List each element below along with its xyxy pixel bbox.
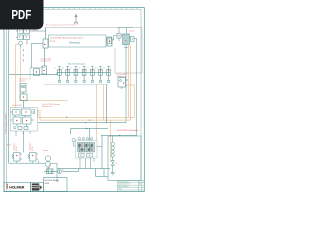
svg-text:F1: F1 [116, 164, 118, 166]
svg-text:10.01.03.1311: 10.01.03.1311 [12, 105, 22, 107]
svg-text:Drossel: Drossel [19, 80, 25, 83]
svg-text:BY-12: BY-12 [16, 146, 18, 151]
svg-text:BY-13: BY-13 [32, 146, 34, 151]
svg-text:10.01.02.3310 / Rücklauffilter: 10.01.02.3310 / Rücklauffilter [117, 129, 139, 132]
svg-text:Drosselventil: Drosselventil [41, 60, 51, 63]
svg-text:Fahrtrichtung vorwärts: Fahrtrichtung vorwärts [4, 114, 7, 134]
svg-text:Dämpfung: Dämpfung [69, 42, 80, 44]
svg-text:Druckspeicher: Druckspeicher [117, 76, 128, 78]
svg-text:BY-111: BY-111 [129, 30, 134, 32]
svg-text:HR 56-3 Reihig: HR 56-3 Reihig [45, 180, 60, 182]
svg-text:Bremse vorn: Bremse vorn [42, 105, 52, 108]
svg-text:BY-10: BY-10 [50, 41, 55, 43]
svg-text:PDF: PDF [11, 9, 31, 22]
svg-text:R1: R1 [62, 170, 64, 172]
svg-text:Y1: Y1 [54, 68, 56, 70]
svg-text:3: 3 [142, 181, 143, 183]
svg-text:Gepr.: Gepr. [118, 188, 123, 191]
svg-text:A3: A3 [139, 183, 141, 186]
svg-text:10.01.02.3300 / Bremsventil ko: 10.01.02.3300 / Bremsventil komb. 35 bar [50, 36, 84, 39]
svg-text:Steckverbindungen: Steckverbindungen [68, 62, 85, 65]
svg-text:10.01.02.3302 /: 10.01.02.3302 / [117, 74, 129, 76]
svg-text:BY-11: BY-11 [7, 145, 11, 147]
svg-text:Pumpe: Pumpe [43, 150, 48, 152]
svg-text:Kühler: Kühler [49, 163, 51, 168]
svg-text:Bremsanlage hydraulisch HR 56-: Bremsanlage hydraulisch HR 56-3 [46, 23, 75, 26]
svg-text:HOLMER: HOLMER [9, 186, 25, 190]
